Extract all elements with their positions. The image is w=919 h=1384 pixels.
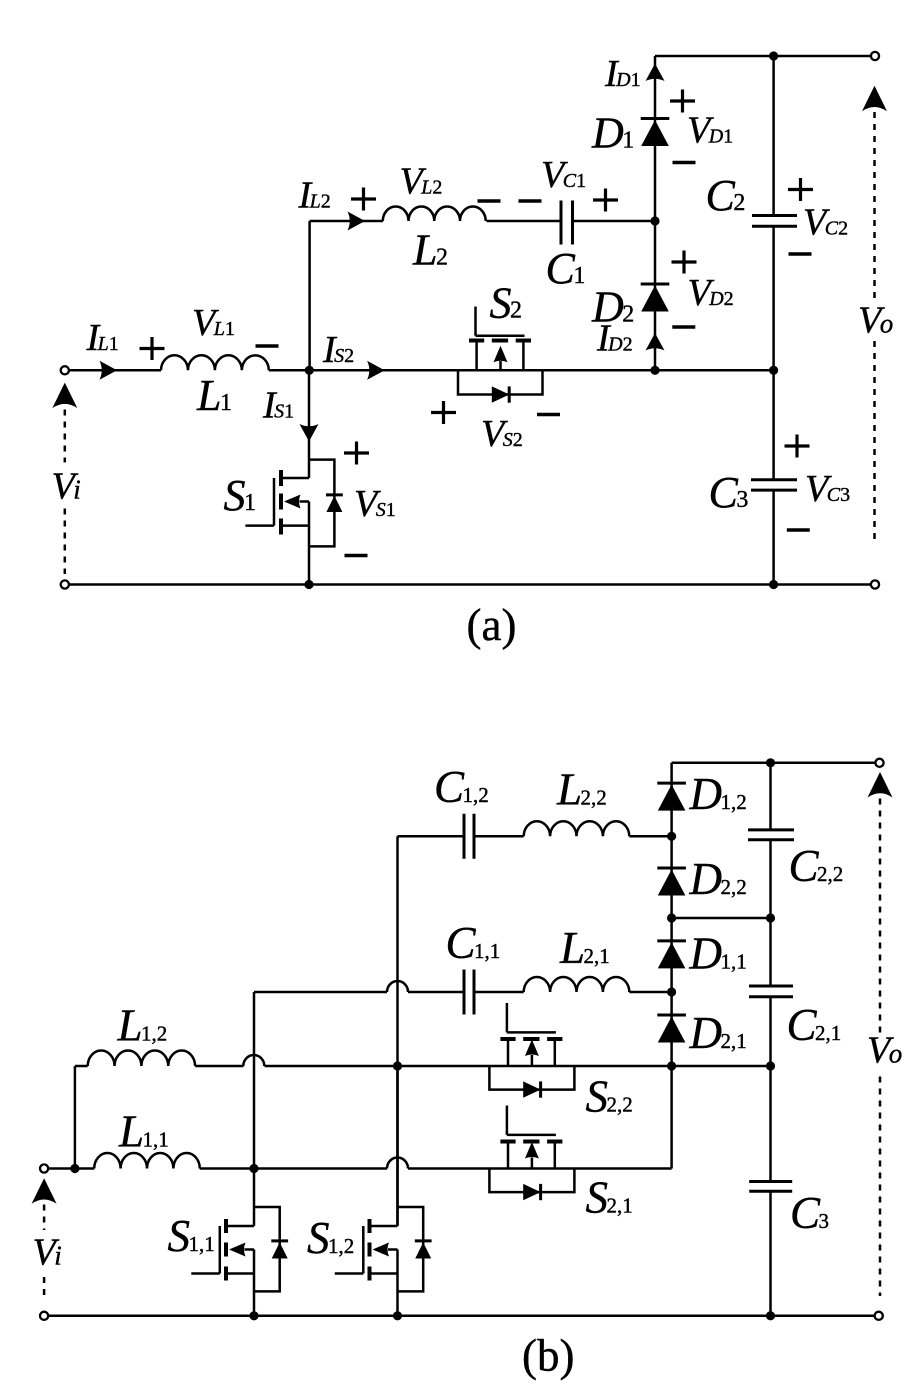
node C1-D1-D2 junction	[650, 216, 659, 225]
minus VL2	[478, 199, 501, 202]
plus VL2	[351, 188, 376, 211]
wire L1,2 riser	[75, 1066, 88, 1169]
transistor S2,1 channel bars	[500, 1140, 562, 1144]
transistor S2 gate bar	[476, 334, 525, 337]
transistor S1,1 drain lead	[226, 1225, 254, 1228]
capacitor C3 (b)	[749, 1182, 792, 1192]
transistor S1,1 gate	[191, 1226, 220, 1274]
transistor S2,2 gate bar	[507, 1031, 556, 1034]
terminal output - (a)	[871, 580, 879, 588]
transistor S1,2 channel bars	[368, 1219, 372, 1281]
plus VD2	[672, 251, 697, 274]
inductor L2	[383, 206, 486, 221]
transistor S1,1 drain wire	[253, 1169, 256, 1227]
transistor S2,1 body arrow	[525, 1142, 539, 1169]
capacitor C1,1	[464, 970, 474, 1015]
node L1-S1 junction	[305, 366, 314, 375]
current arrow IL2	[348, 212, 366, 231]
transistor S1,2 source lead	[370, 1272, 398, 1275]
transistor S2 body diode loop	[458, 370, 543, 394]
current arrow ID1	[646, 64, 665, 82]
plus VC3	[785, 435, 810, 458]
diode D2,2	[657, 868, 686, 896]
terminal input + (b)	[40, 1164, 48, 1172]
transistor S1,1 body arrow	[229, 1243, 254, 1257]
transistor S1,2 source wire	[396, 1250, 399, 1316]
wire C1,1 row left	[254, 991, 387, 994]
capacitor C1,2	[464, 814, 474, 859]
node D2,1 anode junction	[667, 1061, 676, 1070]
node D1,2-D2,2 junction	[667, 832, 676, 841]
node S1,1 drain junction	[249, 1164, 258, 1173]
node bottom rail (b)	[766, 1311, 775, 1320]
wire output rail (a)	[772, 56, 775, 585]
inductor L1	[161, 355, 269, 370]
transistor S1,2 body arrow	[373, 1243, 398, 1257]
node D2-S2 junction	[650, 366, 659, 375]
svg-text:(a): (a)	[467, 600, 517, 650]
dashed line Vi upper (a)	[64, 410, 67, 463]
diode D1	[641, 119, 670, 147]
wire bottom rail (b)	[48, 1315, 874, 1318]
wire mid tap	[672, 917, 771, 920]
wire output rail (b)	[769, 763, 772, 1316]
transistor S1 gate	[245, 478, 274, 526]
current arrow IS2	[367, 361, 385, 380]
transistor S2,2 drain lead	[507, 1039, 510, 1066]
node top rail (b)	[766, 758, 775, 767]
wire S1,1 riser	[253, 992, 256, 1169]
transistor S1 source wire	[308, 502, 311, 585]
transistor S1 drain wire	[308, 370, 311, 478]
minus VC1	[519, 199, 542, 202]
transistor S2,2 gate lead	[506, 1003, 509, 1032]
plus VL1	[140, 337, 165, 360]
diode D2	[641, 284, 670, 312]
svg-text:(b): (b)	[522, 1331, 574, 1381]
dashed line Vi upper (b)	[43, 1205, 46, 1231]
wire D2 branch	[654, 221, 657, 370]
capacitor C1	[561, 201, 573, 245]
inductor L1,2	[88, 1051, 195, 1067]
wire L2 riser	[308, 221, 311, 370]
wire C1,1 row right	[408, 991, 672, 994]
node mid tap rail	[766, 913, 775, 922]
terminal output + (b)	[875, 759, 883, 767]
transistor S1,2 gate	[335, 1226, 364, 1274]
transistor S2 body arrow	[494, 346, 508, 371]
capacitor C2,2	[748, 830, 794, 840]
wire bottom rail (a)	[69, 583, 872, 586]
node D2,2-D1,1 junction	[667, 913, 676, 922]
transistor S2,1 body diode loop	[489, 1169, 574, 1193]
transistor S2,2 body diode	[523, 1081, 540, 1097]
transistor S1 source lead	[281, 524, 309, 527]
transistor S1 body arrow	[284, 495, 309, 509]
current arrow IS1	[300, 424, 319, 442]
plus VD1	[670, 90, 695, 113]
transistor S1,2 body diode	[415, 1241, 432, 1259]
dashed line Vo upper (b)	[879, 799, 882, 1035]
node S1,2 drain junction	[393, 1061, 402, 1070]
wire hop over S1,2 drain	[387, 1158, 408, 1169]
transistor S2 body diode	[492, 386, 509, 402]
inductor L2,2	[524, 821, 630, 836]
diode D1,2	[657, 783, 686, 811]
dashed line Vo upper (a)	[873, 112, 876, 300]
dashed line Vi lower (a)	[64, 509, 67, 575]
minus VC3	[787, 528, 810, 531]
node D1,1-D2,1 junction	[667, 987, 676, 996]
terminal output - (b)	[875, 1312, 883, 1320]
terminal input - (b)	[40, 1312, 48, 1320]
node S1,2 ground	[393, 1311, 402, 1320]
wire D1 branch	[654, 56, 657, 221]
transistor S2,1 source lead	[554, 1142, 557, 1169]
wire hop over S1,2 riser	[387, 981, 408, 992]
inductor L2,1	[524, 977, 630, 992]
plus VC1	[593, 189, 618, 212]
diode D1,1	[657, 941, 686, 969]
wire S2 row to rail	[655, 369, 774, 372]
node C2,1-C3 junction	[766, 1061, 775, 1070]
transistor S1,1 body diode loop	[254, 1207, 280, 1291]
minus VL1	[256, 344, 279, 347]
transistor S1,1 channel bars	[224, 1219, 228, 1281]
wire S1,2 riser	[396, 836, 399, 1226]
transistor S2 drain lead	[475, 341, 478, 371]
wire L1,2 row mid	[195, 1065, 243, 1068]
dashed line Vo lower (b)	[879, 1077, 882, 1297]
transistor S1,1 source wire	[253, 1250, 256, 1316]
capacitor C2,1	[749, 986, 793, 997]
wire S2,2 row	[265, 1065, 771, 1068]
transistor S2,1 drain lead	[507, 1142, 510, 1169]
plus VS2	[431, 401, 456, 424]
transistor S2,1 body diode	[523, 1184, 540, 1200]
transistor S1 drain lead	[281, 477, 309, 480]
transistor S1 body diode	[326, 495, 343, 512]
wire L2-C1 row	[310, 220, 655, 223]
transistor S1,2 drain wire	[396, 1066, 399, 1226]
wire diode chain	[670, 763, 673, 1066]
transistor S1,1 source lead	[226, 1272, 254, 1275]
transistor S1,2 body diode loop	[398, 1207, 424, 1291]
minus VD2	[672, 325, 695, 328]
transistor S2,1 gate lead	[506, 1106, 509, 1135]
output arrow Vo (b)	[868, 772, 893, 798]
diode D2,1	[657, 1015, 686, 1043]
transistor S2 source lead	[522, 341, 525, 371]
transistor S2,2 body diode loop	[489, 1066, 574, 1090]
capacitor C3	[751, 480, 797, 490]
transistor S2,2 source lead	[554, 1039, 557, 1066]
transistor S1 channel bars	[279, 470, 283, 535]
dashed line Vo lower (a)	[873, 341, 876, 542]
transistor S1 body diode loop	[309, 460, 334, 547]
source arrow Vi (a)	[52, 383, 77, 409]
current arrow ID2	[646, 333, 665, 351]
node S1-ground junction	[304, 580, 313, 589]
plus VC2	[788, 178, 813, 201]
current arrow IL1	[100, 361, 118, 380]
terminal input + (a)	[61, 366, 69, 374]
transistor S1,1 body diode	[271, 1241, 288, 1259]
minus VS1	[345, 554, 368, 557]
plus VS1	[344, 442, 369, 465]
terminal output + (a)	[871, 52, 879, 60]
wire input row	[69, 369, 655, 372]
wire C1,2 row	[398, 835, 672, 838]
node S2-rail junction	[769, 366, 778, 375]
output arrow Vo (a)	[862, 86, 887, 112]
transistor S2,1 gate bar	[507, 1134, 556, 1137]
source arrow Vi (b)	[32, 1178, 57, 1204]
wire top rail (a)	[655, 55, 872, 58]
node top rail (a)	[769, 51, 778, 60]
terminal input - (a)	[61, 580, 69, 588]
transistor S2 channel bars	[469, 339, 531, 343]
minus VS2	[537, 413, 560, 416]
transistor S2 gate lead	[474, 307, 477, 336]
transistor S1,2 drain lead	[370, 1225, 398, 1228]
wire top rail (b)	[672, 762, 876, 765]
node S1,1 ground	[249, 1311, 258, 1320]
capacitor C2	[752, 216, 797, 227]
wire S2,1 row right	[408, 1066, 672, 1169]
dashed line Vi lower (b)	[43, 1277, 46, 1299]
node bottom rail (a)	[769, 580, 778, 589]
minus VC2	[789, 252, 812, 255]
node input junction (b)	[70, 1164, 79, 1173]
wire L1,1 row left	[48, 1167, 387, 1170]
transistor S2,2 channel bars	[500, 1037, 562, 1041]
minus VD1	[673, 161, 696, 164]
inductor L1,1	[94, 1153, 200, 1169]
transistor S2,2 body arrow	[525, 1040, 539, 1067]
wire hop over S1,1 drain	[243, 1055, 264, 1066]
